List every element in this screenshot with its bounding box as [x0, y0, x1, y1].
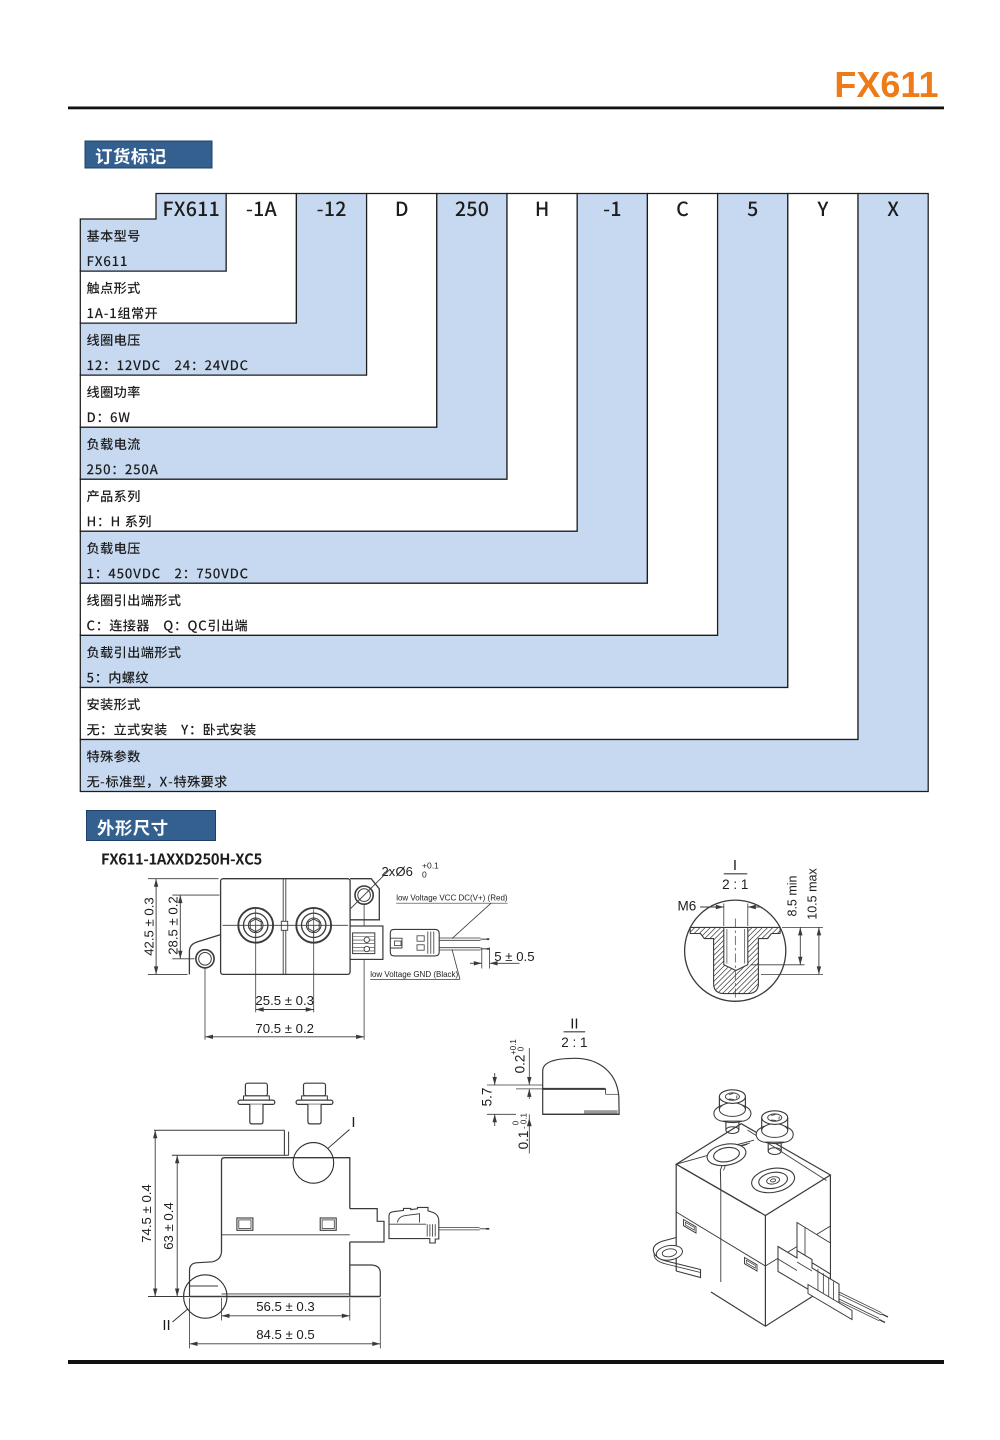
svg-text:0.1: 0.1: [516, 1131, 531, 1150]
svg-text:II: II: [570, 1016, 578, 1033]
svg-text:2 : 1: 2 : 1: [561, 1035, 587, 1050]
svg-text:II: II: [162, 1317, 170, 1334]
svg-text:8.5 min: 8.5 min: [785, 875, 799, 916]
svg-text:74.5 ± 0.4: 74.5 ± 0.4: [139, 1184, 154, 1243]
svg-text:84.5 ± 0.5: 84.5 ± 0.5: [256, 1327, 315, 1342]
svg-text:M6: M6: [678, 899, 697, 914]
svg-text:- 0.1: - 0.1: [520, 1112, 529, 1129]
svg-text:5 ± 0.5: 5 ± 0.5: [494, 949, 534, 964]
svg-text:70.5 ± 0.2: 70.5 ± 0.2: [255, 1021, 314, 1036]
svg-text:2 : 1: 2 : 1: [722, 877, 748, 892]
svg-text:I: I: [351, 1114, 355, 1131]
svg-text:0: 0: [422, 870, 427, 880]
svg-text:42.5 ± 0.3: 42.5 ± 0.3: [141, 897, 156, 956]
svg-text:56.5 ± 0.3: 56.5 ± 0.3: [256, 1299, 315, 1314]
svg-text:+0.1: +0.1: [509, 1039, 518, 1055]
svg-text:low Voltage GND (Black): low Voltage GND (Black): [370, 970, 458, 979]
svg-text:low Voltage VCC DC(V+) (Red): low Voltage VCC DC(V+) (Red): [396, 894, 508, 903]
svg-text:Ø6: Ø6: [396, 864, 413, 879]
svg-text:2x: 2x: [382, 864, 396, 879]
svg-text:0.2: 0.2: [513, 1055, 528, 1074]
svg-text:25.5 ± 0.3: 25.5 ± 0.3: [255, 993, 314, 1008]
svg-text:28.5 ± 0.2: 28.5 ± 0.2: [165, 896, 180, 955]
svg-text:I: I: [733, 857, 737, 874]
svg-text:FX611: FX611: [834, 64, 938, 105]
svg-text:63 ± 0.4: 63 ± 0.4: [161, 1202, 176, 1250]
svg-text:0: 0: [517, 1046, 526, 1051]
svg-text:10.5 max: 10.5 max: [805, 868, 819, 920]
svg-text:5.7: 5.7: [479, 1088, 494, 1107]
